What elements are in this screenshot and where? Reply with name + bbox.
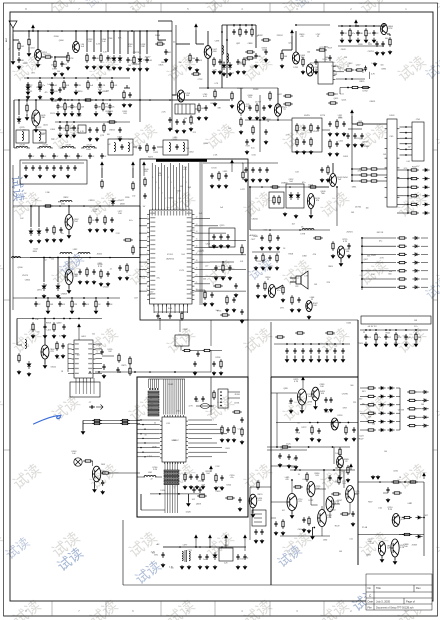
svg-text:2.2K: 2.2K bbox=[213, 155, 218, 157]
svg-text:14: 14 bbox=[196, 231, 198, 233]
capacitor C63 bbox=[309, 348, 312, 354]
resistor R46 bbox=[220, 314, 230, 316]
bus wire a1 bbox=[148, 379, 150, 388]
ground bbox=[95, 137, 99, 141]
svg-text:D720: D720 bbox=[212, 167, 218, 169]
svg-text:P5.0B: P5.0B bbox=[362, 527, 368, 529]
capacitor C27 bbox=[353, 133, 356, 139]
ground bbox=[248, 116, 252, 120]
transistor Q27 bbox=[346, 486, 355, 503]
capacitor C74 bbox=[106, 301, 109, 307]
wire bbox=[338, 45, 384, 47]
ground bbox=[256, 294, 260, 298]
junction bbox=[57, 99, 59, 101]
svg-text:Q684: Q684 bbox=[59, 40, 64, 42]
diode D60b bbox=[387, 386, 394, 389]
diode D654 bbox=[421, 424, 428, 427]
wire bbox=[321, 527, 323, 536]
wire bbox=[400, 154, 406, 156]
wire bbox=[329, 512, 331, 519]
junction bbox=[159, 318, 161, 320]
ground bbox=[77, 112, 81, 116]
junction bbox=[404, 481, 406, 483]
junction bbox=[98, 371, 100, 373]
ground bbox=[278, 463, 282, 467]
wire bbox=[387, 33, 390, 35]
ground bbox=[294, 465, 298, 469]
svg-text:R286: R286 bbox=[53, 101, 57, 103]
wire bbox=[311, 504, 318, 506]
capacitor C116 bbox=[212, 361, 215, 367]
ground bbox=[63, 112, 67, 116]
wire bbox=[222, 87, 241, 89]
connector CN201 bbox=[412, 122, 424, 161]
wire bbox=[277, 88, 279, 104]
resistor R653 bbox=[407, 416, 417, 418]
transistor Q29 bbox=[392, 514, 400, 527]
ground bbox=[342, 132, 346, 136]
capacitor C100 bbox=[102, 364, 105, 370]
svg-text:0.01: 0.01 bbox=[349, 538, 352, 540]
svg-text:103: 103 bbox=[179, 186, 182, 188]
svg-text:Page of: Page of bbox=[406, 600, 415, 604]
svg-text:L779: L779 bbox=[104, 103, 108, 105]
junction bbox=[169, 99, 171, 101]
capacitor C124 bbox=[317, 428, 320, 434]
svg-text:Document of Setup TFT-5012B.sc: Document of Setup TFT-5012B.sch bbox=[376, 607, 414, 610]
svg-text:ZD417: ZD417 bbox=[145, 56, 151, 58]
resistor R64 bbox=[366, 420, 376, 422]
ground bbox=[193, 371, 197, 375]
junction bbox=[239, 24, 241, 26]
power +V bbox=[351, 110, 354, 116]
svg-text:U301: U301 bbox=[389, 115, 395, 117]
svg-text:C617: C617 bbox=[423, 515, 428, 517]
junction bbox=[209, 546, 211, 548]
wire IC right pin 5 bbox=[194, 247, 218, 249]
wire bbox=[334, 503, 340, 505]
wire bbox=[86, 382, 88, 394]
wire IC top pin 10 bbox=[179, 163, 181, 208]
junction bbox=[51, 77, 53, 79]
bandpass filter FL102 bbox=[163, 140, 188, 155]
transistor Q8 bbox=[177, 90, 184, 102]
resistor R124 bbox=[361, 86, 371, 88]
svg-text:47u: 47u bbox=[414, 326, 417, 328]
resistor R342 bbox=[409, 186, 419, 188]
IF transformer T101 bbox=[16, 130, 29, 143]
capacitor C35 bbox=[58, 125, 61, 131]
ground bbox=[281, 531, 285, 535]
wire IC bottom pin 7 bbox=[178, 304, 180, 313]
resistor R104 bbox=[202, 349, 212, 351]
wire bbox=[38, 206, 40, 227]
diode D4 bbox=[222, 62, 226, 70]
capacitor C37 bbox=[88, 127, 91, 133]
svg-text:103: 103 bbox=[314, 284, 317, 286]
diode D61b bbox=[387, 395, 394, 398]
resistor R271 bbox=[273, 195, 275, 205]
ground bbox=[74, 91, 78, 95]
junction bbox=[139, 276, 140, 277]
zone divider bottom 1 bbox=[51, 601, 53, 616]
wire bbox=[417, 408, 421, 410]
svg-text:CN219: CN219 bbox=[133, 52, 140, 54]
wire bbox=[140, 494, 142, 510]
resistor R54 bbox=[132, 181, 134, 191]
resistor R9 bbox=[63, 80, 65, 90]
svg-text:July 5, 2005: July 5, 2005 bbox=[376, 600, 391, 604]
resistor R511 bbox=[213, 390, 215, 400]
diode D15 bbox=[27, 361, 31, 369]
junction bbox=[365, 25, 367, 27]
ground bbox=[43, 364, 47, 368]
resistor R665 bbox=[402, 533, 412, 535]
junction bbox=[361, 262, 363, 264]
wire IC top pin 6 bbox=[166, 167, 168, 208]
svg-text:102: 102 bbox=[282, 510, 285, 512]
wire bbox=[26, 100, 28, 103]
wire U401 bottom pin 1 bbox=[75, 378, 77, 382]
wire bbox=[146, 31, 148, 54]
junction bbox=[361, 245, 363, 247]
junction bbox=[207, 87, 209, 89]
svg-text:Q305: Q305 bbox=[108, 111, 114, 113]
wire bbox=[231, 166, 233, 172]
junction bbox=[32, 30, 34, 32]
junction bbox=[233, 24, 235, 26]
svg-text:102: 102 bbox=[20, 218, 23, 220]
ground bbox=[187, 565, 191, 569]
resistor R74 bbox=[291, 295, 293, 305]
ground bbox=[65, 134, 69, 138]
transistor Q26 bbox=[326, 497, 334, 512]
junction bbox=[339, 469, 341, 471]
ground bbox=[102, 374, 106, 378]
junction bbox=[332, 446, 334, 448]
resistor R114 bbox=[338, 475, 340, 485]
capacitor C25 bbox=[381, 41, 384, 47]
capacitor C67 bbox=[341, 348, 344, 354]
capacitor C139 bbox=[236, 554, 239, 560]
ground bbox=[384, 343, 388, 347]
svg-text:47u: 47u bbox=[61, 233, 64, 235]
ground bbox=[302, 528, 306, 532]
svg-text:CN701: CN701 bbox=[237, 88, 244, 90]
junction bbox=[389, 329, 391, 331]
wire bbox=[26, 114, 28, 117]
svg-text:4.7K: 4.7K bbox=[189, 406, 194, 408]
svg-text:C751: C751 bbox=[396, 336, 400, 338]
ground bbox=[52, 174, 56, 178]
junction bbox=[85, 99, 87, 101]
svg-text:CN310: CN310 bbox=[25, 280, 30, 282]
sub box SAW bbox=[20, 160, 87, 184]
svg-text:223: 223 bbox=[353, 402, 356, 404]
resistor R52 bbox=[242, 170, 244, 180]
wire bbox=[339, 468, 341, 476]
svg-text:R607: R607 bbox=[161, 62, 166, 64]
junction bbox=[385, 329, 387, 331]
ground bbox=[168, 127, 172, 131]
wire IC left pin 7 bbox=[140, 261, 147, 263]
svg-text:试读: 试读 bbox=[9, 175, 26, 202]
resistor R73 bbox=[282, 285, 284, 295]
svg-text:D947: D947 bbox=[371, 274, 375, 276]
resistor R59 bbox=[123, 239, 133, 241]
capacitor C32 bbox=[70, 104, 73, 110]
wire bbox=[250, 486, 271, 488]
svg-text:C447: C447 bbox=[149, 291, 154, 293]
wire bbox=[362, 286, 396, 288]
svg-text:ZD675: ZD675 bbox=[22, 275, 28, 277]
diode D60 bbox=[378, 386, 385, 389]
ground bbox=[212, 371, 216, 375]
ground bbox=[251, 178, 255, 182]
wire bbox=[239, 25, 241, 27]
capacitor C67 bbox=[78, 269, 81, 275]
zone divider top 5 bbox=[269, 3, 271, 12]
power +V bbox=[350, 464, 353, 470]
wire bbox=[195, 30, 197, 44]
wire U401 left pin 2 bbox=[68, 348, 72, 350]
resistor R56 bbox=[53, 225, 55, 235]
inductor L12 bbox=[12, 257, 21, 259]
wire bbox=[360, 387, 366, 389]
diode D360 bbox=[412, 236, 419, 239]
svg-text:C580: C580 bbox=[176, 191, 180, 193]
svg-text:R330: R330 bbox=[125, 197, 129, 199]
resistor R86 bbox=[283, 103, 293, 105]
wire bbox=[242, 163, 244, 170]
inductor L103 bbox=[83, 147, 95, 149]
resistor R48 bbox=[213, 285, 223, 287]
svg-text:Q885: Q885 bbox=[283, 388, 287, 390]
capacitor C28 bbox=[360, 133, 363, 139]
capacitor C22 bbox=[356, 30, 359, 36]
junction bbox=[407, 204, 409, 206]
connector pin 1 bbox=[405, 126, 407, 128]
wire IC right pin 3 bbox=[194, 232, 226, 234]
wire bbox=[49, 147, 53, 149]
resistor R68 bbox=[308, 186, 318, 188]
svg-text:ZD181: ZD181 bbox=[234, 402, 239, 404]
wire U401 left pin 7 bbox=[68, 372, 72, 374]
bus wire b4 bbox=[169, 379, 171, 415]
ground bbox=[219, 371, 223, 375]
resistor R360 bbox=[397, 237, 407, 239]
junction bbox=[26, 99, 28, 101]
wire IC left pin 9 bbox=[140, 276, 147, 278]
wire bbox=[421, 245, 428, 247]
junction bbox=[302, 343, 304, 345]
connector pin 6 bbox=[405, 154, 407, 156]
resistor R92 bbox=[53, 322, 55, 332]
diode D343 bbox=[422, 194, 429, 197]
wire bbox=[362, 270, 396, 272]
ground bbox=[88, 228, 92, 232]
power +V bbox=[302, 377, 305, 383]
zone divider top 2 bbox=[105, 3, 107, 12]
inductor L10 bbox=[60, 253, 72, 254]
power +V bbox=[244, 535, 247, 541]
IC U501 MCU bbox=[160, 415, 188, 464]
wire rail bbox=[338, 25, 378, 27]
wire bbox=[365, 123, 388, 125]
ground bbox=[118, 276, 122, 280]
junction bbox=[100, 30, 102, 32]
svg-text:ZD337: ZD337 bbox=[313, 131, 320, 133]
wire bbox=[210, 405, 215, 407]
svg-text:13: 13 bbox=[196, 224, 198, 226]
junction bbox=[407, 169, 409, 171]
diode D62 bbox=[378, 403, 385, 406]
wire IC right pin 2 bbox=[194, 225, 218, 227]
wire bbox=[316, 49, 318, 51]
wire bbox=[78, 110, 80, 113]
svg-text:Q285: Q285 bbox=[135, 64, 141, 66]
antenna ANT1 bbox=[9, 21, 17, 34]
wire bbox=[27, 89, 29, 92]
wire MCU bottom bundle 1 bbox=[164, 462, 166, 513]
ground bbox=[26, 95, 30, 99]
wire bbox=[233, 25, 235, 27]
wire bbox=[241, 87, 278, 89]
ground bbox=[351, 522, 355, 526]
ground bbox=[240, 319, 244, 323]
capacitor C105 bbox=[194, 396, 197, 402]
ground bbox=[260, 539, 264, 543]
ground bbox=[67, 289, 71, 293]
capacitor C61 bbox=[293, 348, 296, 354]
ground bbox=[404, 343, 408, 347]
wire bbox=[373, 37, 375, 40]
junction bbox=[30, 205, 32, 207]
svg-text:R145: R145 bbox=[58, 202, 62, 204]
section box video IF bbox=[140, 159, 248, 320]
resistor R97 bbox=[232, 411, 242, 413]
ground bbox=[328, 152, 332, 156]
wire MCU left 1 bbox=[137, 419, 160, 421]
svg-text:102: 102 bbox=[79, 156, 82, 158]
capacitor C51 bbox=[232, 297, 235, 303]
diode D5 bbox=[228, 62, 232, 70]
ladder dot 1 bbox=[149, 388, 151, 390]
resistor R16 bbox=[191, 73, 201, 75]
bus wire a6 bbox=[158, 379, 160, 388]
junction bbox=[139, 254, 140, 255]
wire bbox=[30, 297, 120, 299]
inductor L9 bbox=[60, 201, 72, 203]
capacitor C34 bbox=[108, 104, 111, 110]
junction bbox=[326, 343, 328, 345]
svg-text:560: 560 bbox=[57, 71, 60, 73]
svg-text:R411: R411 bbox=[226, 448, 230, 450]
ground bbox=[52, 238, 56, 242]
capacitor C112 bbox=[220, 475, 223, 481]
resistor R123 bbox=[350, 86, 360, 88]
wire bbox=[155, 476, 162, 478]
svg-text:1: 1 bbox=[177, 193, 178, 195]
connector pin 3 bbox=[405, 137, 407, 139]
power +V bbox=[195, 24, 198, 30]
wire top rail bbox=[24, 30, 172, 32]
wire bbox=[267, 446, 350, 448]
resistor R60 bbox=[86, 267, 88, 277]
svg-text:ZD596: ZD596 bbox=[407, 178, 413, 180]
ground bbox=[230, 104, 234, 108]
svg-text:CN102: CN102 bbox=[103, 286, 109, 288]
transistor Q28 bbox=[337, 456, 344, 468]
ground bbox=[388, 50, 392, 54]
junction bbox=[339, 422, 341, 424]
ground bbox=[67, 234, 71, 238]
svg-text:5.0V: 5.0V bbox=[168, 308, 173, 310]
junction bbox=[373, 25, 375, 27]
wire bbox=[286, 356, 288, 359]
capacitor C41 bbox=[120, 144, 123, 150]
capacitor C75 bbox=[244, 167, 247, 173]
capacitor C113 bbox=[238, 497, 241, 503]
capacitor C40 bbox=[128, 92, 131, 98]
ground bbox=[290, 308, 294, 312]
wire bbox=[78, 330, 80, 340]
power +V bbox=[32, 25, 35, 31]
diode D8 bbox=[17, 116, 21, 124]
resistor R58 bbox=[104, 215, 106, 225]
transistor Q1 bbox=[35, 49, 42, 60]
ground bbox=[210, 184, 214, 188]
wire bbox=[375, 341, 377, 344]
zone divider top 1 bbox=[51, 3, 53, 12]
wire bbox=[187, 494, 189, 502]
svg-text:D70: D70 bbox=[404, 168, 408, 170]
svg-text:CN244: CN244 bbox=[252, 218, 259, 220]
wire bbox=[199, 87, 222, 89]
wire IC top pin 11 bbox=[182, 165, 184, 208]
svg-text:560: 560 bbox=[350, 385, 353, 387]
ground bbox=[264, 140, 268, 144]
svg-text:CN813: CN813 bbox=[362, 141, 367, 143]
wire bbox=[318, 356, 320, 359]
capacitor C110 bbox=[192, 487, 195, 493]
junction bbox=[139, 290, 140, 291]
wire bbox=[322, 129, 330, 131]
wire bbox=[315, 401, 317, 405]
wire bbox=[158, 20, 172, 22]
wire bbox=[405, 341, 407, 344]
resistor R116 bbox=[339, 447, 341, 457]
diode D364 bbox=[412, 269, 419, 272]
svg-text:0.01: 0.01 bbox=[303, 479, 307, 481]
junction bbox=[345, 78, 347, 80]
wire bbox=[17, 344, 22, 346]
junction bbox=[407, 178, 409, 180]
zone tick left 1 bbox=[4, 149, 11, 151]
resistor R301 bbox=[359, 168, 369, 170]
capacitor C87 bbox=[302, 125, 305, 131]
diode D361 bbox=[412, 245, 419, 248]
capacitor C134 bbox=[254, 529, 257, 535]
wire bbox=[417, 391, 421, 393]
svg-text:D694: D694 bbox=[338, 117, 342, 119]
junction bbox=[221, 546, 223, 548]
ground bbox=[138, 67, 142, 71]
resistor R43 bbox=[144, 177, 146, 187]
ground bbox=[225, 308, 229, 312]
wire bbox=[400, 137, 406, 139]
ground bbox=[126, 67, 130, 71]
